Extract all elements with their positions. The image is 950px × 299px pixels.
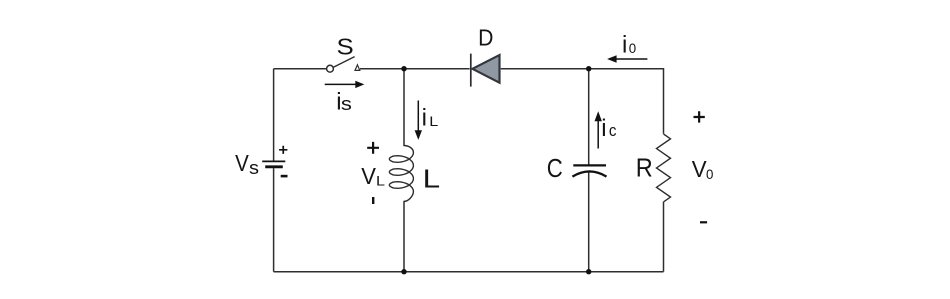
svg-text:i: i [422,105,427,132]
battery Vs negative plate thick short [265,165,283,168]
svg-text:s: s [249,157,259,178]
battery plus sign [279,146,287,154]
wire capacitor branch bottom [588,172,590,272]
bottom junction dot at capacitor branch [586,269,591,274]
svg-text:L: L [423,165,441,193]
capacitor C bottom curved plate [572,171,606,176]
svg-text:s: s [341,93,352,114]
switch S contact triangle [355,65,360,71]
svg-text:c: c [609,122,617,140]
svg-text:S: S [337,34,354,60]
current arrow io pointing left [607,55,647,62]
svg-text:V: V [361,163,376,189]
resistor R zigzag [657,134,671,202]
node A junction dot [401,66,406,71]
svg-text:C: C [547,155,563,183]
node B junction dot [586,66,591,71]
wire left rail above battery [273,69,275,162]
Vo minus sign [700,221,707,223]
diode D cathode bar [470,54,472,87]
switch S circle [327,65,334,72]
wire inductor branch bottom [403,201,405,272]
current arrow is pointing right [325,81,365,88]
svg-text:V: V [235,150,249,176]
battery Vs positive plate thin long [262,160,285,162]
current arrow iL pointing down [415,101,422,140]
wire bottom rail [274,271,664,273]
svg-text:R: R [636,154,653,182]
wire diode to node B [501,68,589,70]
wire left rail below battery [273,168,275,272]
wire capacitor branch top [588,69,590,165]
wire node B to top-right corner and right rail down to resistor [589,69,664,134]
svg-text:0: 0 [706,167,714,182]
wire switch to node A [360,68,404,70]
bottom junction dot at inductor branch [401,269,406,274]
VL plus sign [367,142,379,154]
svg-text:0: 0 [629,41,637,56]
svg-text:L: L [376,173,385,188]
svg-text:L: L [429,114,438,129]
inductor L coil [389,146,413,202]
wire below resistor to bottom-right corner [663,202,665,272]
svg-text:V: V [692,156,707,182]
diode D triangle [472,55,499,83]
wire node A to diode [404,68,470,70]
switch S blade [333,57,354,68]
battery minus sign [281,175,288,178]
svg-text:D: D [478,25,493,51]
current arrow ic pointing up [595,111,602,148]
wire top-left from left rail to switch [274,68,327,70]
VL minus tick [372,197,374,204]
svg-text:i: i [622,32,627,59]
capacitor C top plate [573,164,606,166]
wire inductor branch top [403,69,405,146]
Vo plus sign [694,111,705,122]
svg-text:i: i [601,115,606,142]
